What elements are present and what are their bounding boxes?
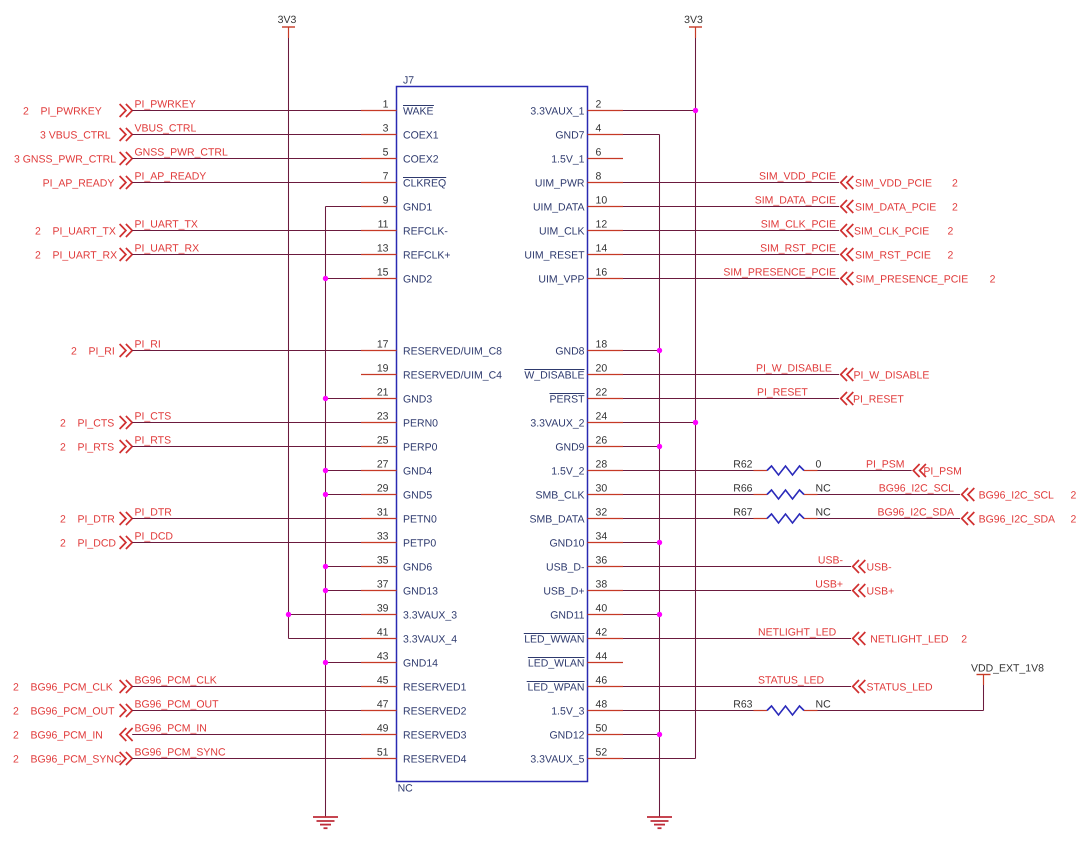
wire PI_AP_READY: [132, 182, 361, 184]
pin 10 UIM_DATA: [533, 195, 623, 214]
svg-text:SIM_DATA_PCIE: SIM_DATA_PCIE: [855, 202, 936, 214]
pin 40 GND11: [550, 603, 623, 622]
wire: [623, 350, 660, 352]
svg-text:3.3VAUX_5: 3.3VAUX_5: [530, 754, 584, 766]
junction: [657, 444, 662, 449]
junction: [657, 348, 662, 353]
wire PI_RESET: [623, 398, 839, 400]
svg-text:5: 5: [383, 147, 389, 159]
wire PI_PSM: [818, 470, 912, 472]
wire PI_UART_RX: [132, 254, 361, 256]
svg-text:VDD_EXT_1V8: VDD_EXT_1V8: [971, 663, 1044, 675]
wire BG96_PCM_CLK: [132, 686, 361, 688]
svg-text:PI_CTS: PI_CTS: [135, 411, 172, 423]
svg-text:USB_D-: USB_D-: [546, 562, 585, 574]
svg-text:UIM_RESET: UIM_RESET: [524, 250, 585, 262]
svg-text:3.3VAUX_2: 3.3VAUX_2: [530, 418, 584, 430]
pin 35 GND6: [361, 555, 432, 574]
svg-text:8: 8: [596, 171, 602, 183]
svg-text:PERP0: PERP0: [403, 442, 438, 454]
svg-text:PI_PWRKEY: PI_PWRKEY: [135, 99, 196, 111]
wire BG96_I2C_SDA: [818, 518, 961, 520]
svg-text:35: 35: [377, 555, 389, 567]
pin 37 GND13: [361, 579, 438, 598]
svg-text:23: 23: [377, 411, 389, 423]
svg-text:2 PI_UART_TX: 2 PI_UART_TX: [35, 226, 116, 238]
svg-text:GND11: GND11: [550, 610, 584, 622]
svg-text:GNSS_PWR_CTRL: GNSS_PWR_CTRL: [135, 147, 229, 159]
pin 26 GND9: [555, 435, 623, 454]
svg-text:2: 2: [596, 99, 602, 111]
svg-text:39: 39: [377, 603, 389, 615]
svg-text:2: 2: [952, 178, 958, 190]
svg-text:10: 10: [596, 195, 608, 207]
svg-text:4: 4: [596, 123, 602, 135]
wire 3V3 rail left: [288, 38, 290, 639]
svg-text:45: 45: [377, 675, 389, 687]
pin 11 REFCLK-: [361, 219, 448, 238]
svg-text:41: 41: [377, 627, 389, 639]
pin 39 3.3VAUX_3: [361, 603, 457, 622]
svg-text:24: 24: [596, 411, 608, 423]
pin 46 LED_WPAN: [527, 675, 623, 694]
power 3V3 left: [278, 14, 297, 38]
svg-text:SMB_DATA: SMB_DATA: [529, 514, 584, 526]
junction: [323, 396, 328, 401]
pin 38 USB_D+: [543, 579, 623, 598]
svg-text:R66: R66: [733, 483, 752, 495]
svg-text:BG96_PCM_CLK: BG96_PCM_CLK: [135, 675, 217, 687]
svg-text:USB-: USB-: [818, 555, 844, 567]
port SIM_RST_PCIE: [841, 248, 954, 262]
wire BG96_PCM_IN: [132, 734, 361, 736]
svg-text:49: 49: [377, 723, 389, 735]
power 3V3 right: [684, 14, 703, 38]
svg-text:3.3VAUX_4: 3.3VAUX_4: [403, 634, 457, 646]
svg-text:R62: R62: [733, 459, 752, 471]
pin 3 COEX1: [361, 123, 439, 142]
svg-text:2: 2: [1071, 514, 1077, 526]
svg-text:UIM_DATA: UIM_DATA: [533, 202, 585, 214]
ground right: [647, 817, 672, 828]
pin 19 RESERVED/UIM_C4: [361, 363, 502, 382]
wire: [623, 614, 660, 616]
wire SIM_PRESENCE_PCIE: [623, 278, 839, 280]
port PI_UART_RX: [35, 248, 132, 262]
junction: [693, 420, 698, 425]
svg-text:GND2: GND2: [403, 274, 432, 286]
wire PI_UART_TX: [132, 230, 361, 232]
wire: [326, 206, 362, 208]
pin 8 UIM_PWR: [535, 171, 623, 190]
svg-text:PI_AP_READY: PI_AP_READY: [43, 178, 115, 190]
svg-text:GND6: GND6: [403, 562, 432, 574]
junction: [323, 588, 328, 593]
pin 34 GND10: [549, 531, 623, 550]
svg-text:PI_RTS: PI_RTS: [135, 435, 172, 447]
wire: [326, 590, 362, 592]
svg-text:W_DISABLE: W_DISABLE: [524, 370, 584, 382]
port PI_RTS: [60, 440, 132, 454]
svg-text:GND8: GND8: [555, 346, 584, 358]
svg-text:GND14: GND14: [403, 658, 438, 670]
svg-text:2 PI_CTS: 2 PI_CTS: [60, 418, 114, 430]
pin 14 UIM_RESET: [524, 243, 623, 262]
svg-text:19: 19: [377, 363, 389, 375]
wire STATUS_LED: [623, 686, 851, 688]
wire: [623, 134, 660, 136]
port SIM_VDD_PCIE: [841, 176, 958, 190]
wire SIM_VDD_PCIE: [623, 182, 839, 184]
svg-text:3V3: 3V3: [278, 14, 297, 26]
svg-text:SMB_CLK: SMB_CLK: [535, 490, 584, 502]
pin 9 GND1: [361, 195, 432, 214]
wire PI_RI: [132, 350, 361, 352]
svg-text:RESERVED3: RESERVED3: [403, 730, 467, 742]
svg-text:R63: R63: [733, 699, 752, 711]
svg-text:37: 37: [377, 579, 389, 591]
junction: [323, 276, 328, 281]
pin 36 USB_D-: [546, 555, 623, 574]
pin 52 3.3VAUX_5: [530, 747, 623, 766]
svg-text:SIM_RST_PCIE: SIM_RST_PCIE: [760, 243, 836, 255]
port PI_UART_TX: [35, 224, 132, 238]
svg-text:USB+: USB+: [867, 586, 895, 598]
svg-text:1.5V_2: 1.5V_2: [551, 466, 584, 478]
wire: [623, 542, 660, 544]
port PI_AP_READY: [43, 176, 133, 190]
svg-text:27: 27: [377, 459, 389, 471]
wire PI_CTS: [132, 422, 361, 424]
wire USB+: [623, 590, 851, 592]
wire BG96_PCM_OUT: [132, 710, 361, 712]
pin 24 3.3VAUX_2: [530, 411, 623, 430]
svg-text:NC: NC: [816, 483, 832, 495]
svg-text:BG96_I2C_SCL: BG96_I2C_SCL: [879, 483, 954, 495]
svg-text:48: 48: [596, 699, 608, 711]
pin 21 GND3: [361, 387, 432, 406]
pin 7 CLKREQ: [361, 171, 446, 190]
svg-text:RESERVED1: RESERVED1: [403, 682, 467, 694]
pin 32 SMB_DATA: [529, 507, 623, 526]
svg-text:2: 2: [990, 274, 996, 286]
svg-text:BG96_PCM_IN: BG96_PCM_IN: [135, 723, 207, 735]
svg-text:26: 26: [596, 435, 608, 447]
svg-text:32: 32: [596, 507, 608, 519]
wire: [289, 638, 362, 640]
wire BG96_PCM_SYNC: [132, 758, 361, 760]
port PI_PSM: [913, 464, 962, 478]
svg-text:3.3VAUX_3: 3.3VAUX_3: [403, 610, 457, 622]
wire: [623, 446, 660, 448]
ground left: [313, 817, 338, 828]
pin 20 W_DISABLE: [524, 363, 623, 382]
svg-text:RESERVED4: RESERVED4: [403, 754, 467, 766]
svg-text:PERN0: PERN0: [403, 418, 438, 430]
port SIM_PRESENCE_PCIE: [841, 272, 996, 286]
wire: [623, 710, 754, 712]
svg-text:34: 34: [596, 531, 608, 543]
svg-text:COEX2: COEX2: [403, 154, 439, 166]
svg-text:BG96_PCM_OUT: BG96_PCM_OUT: [135, 699, 220, 711]
junction: [323, 468, 328, 473]
svg-text:USB+: USB+: [815, 579, 843, 591]
svg-text:1.5V_1: 1.5V_1: [551, 154, 584, 166]
wire 3V3 rail right: [695, 38, 697, 759]
svg-text:SIM_CLK_PCIE: SIM_CLK_PCIE: [761, 219, 836, 231]
svg-text:BG96_I2C_SDA: BG96_I2C_SDA: [878, 507, 954, 519]
port PI_DTR: [60, 512, 132, 526]
svg-text:PI_W_DISABLE: PI_W_DISABLE: [756, 363, 832, 375]
svg-text:GND13: GND13: [403, 586, 438, 598]
junction: [323, 660, 328, 665]
pin 15 GND2: [361, 267, 432, 286]
port STATUS_LED: [853, 680, 933, 694]
svg-text:40: 40: [596, 603, 608, 615]
svg-text:2 BG96_PCM_IN: 2 BG96_PCM_IN: [13, 730, 103, 742]
svg-text:REFCLK-: REFCLK-: [403, 226, 448, 238]
svg-text:NC: NC: [816, 699, 832, 711]
svg-text:GND10: GND10: [549, 538, 584, 550]
port PI_DCD: [60, 536, 132, 550]
svg-text:22: 22: [596, 387, 608, 399]
svg-text:31: 31: [377, 507, 389, 519]
pin 13 REFCLK+: [361, 243, 451, 262]
pin 49 RESERVED3: [361, 723, 467, 742]
svg-text:11: 11: [378, 219, 389, 231]
svg-text:GND5: GND5: [403, 490, 432, 502]
svg-text:1.5V_3: 1.5V_3: [551, 706, 584, 718]
junction: [323, 564, 328, 569]
pin 23 PERN0: [361, 411, 438, 430]
svg-text:R67: R67: [733, 507, 752, 519]
pin 48 1.5V_3: [551, 699, 623, 718]
pin 4 GND7: [555, 123, 623, 142]
pin 16 UIM_VPP: [538, 267, 623, 286]
svg-text:BG96_I2C_SDA: BG96_I2C_SDA: [979, 514, 1055, 526]
svg-text:3: 3: [383, 123, 389, 135]
pin 12 UIM_CLK: [539, 219, 623, 238]
svg-text:GND4: GND4: [403, 466, 432, 478]
junction: [657, 540, 662, 545]
svg-text:28: 28: [596, 459, 608, 471]
wire: [623, 758, 696, 760]
wire: [623, 470, 754, 472]
wire to VDD_EXT_1V8: [818, 710, 984, 712]
svg-text:SIM_VDD_PCIE: SIM_VDD_PCIE: [855, 178, 932, 190]
port BG96_PCM_OUT: [13, 704, 132, 718]
svg-text:43: 43: [377, 651, 389, 663]
port BG96_PCM_IN: [13, 728, 133, 742]
port BG96_I2C_SCL: [962, 488, 1077, 502]
port USB+: [853, 584, 895, 598]
svg-text:2: 2: [961, 634, 967, 646]
svg-text:LED_WPAN: LED_WPAN: [528, 682, 585, 694]
svg-text:15: 15: [377, 267, 389, 279]
port BG96_I2C_SDA: [962, 512, 1077, 526]
port BG96_PCM_CLK: [13, 680, 132, 694]
resistor R66: [733, 483, 831, 500]
resistor R67: [733, 507, 831, 524]
connector J7 body: [397, 87, 588, 782]
svg-text:2 PI_PWRKEY: 2 PI_PWRKEY: [23, 106, 102, 118]
wire PI_RTS: [132, 446, 361, 448]
pin 29 GND5: [361, 483, 432, 502]
svg-text:NC: NC: [816, 507, 832, 519]
junction: [286, 612, 291, 617]
pin 22 PERST: [549, 387, 623, 406]
wire NETLIGHT_LED: [623, 638, 851, 640]
port PI_RESET: [841, 392, 905, 406]
wire: [623, 422, 696, 424]
svg-text:3.3VAUX_1: 3.3VAUX_1: [530, 106, 584, 118]
svg-text:33: 33: [377, 531, 389, 543]
wire: [326, 470, 362, 472]
port BG96_PCM_SYNC: [13, 752, 132, 766]
svg-text:STATUS_LED: STATUS_LED: [867, 682, 934, 694]
svg-text:SIM_PRESENCE_PCIE: SIM_PRESENCE_PCIE: [723, 267, 836, 279]
port PI_CTS: [60, 416, 132, 430]
svg-text:2: 2: [948, 226, 954, 238]
pin 31 PETN0: [361, 507, 437, 526]
svg-text:LED_WWAN: LED_WWAN: [524, 634, 584, 646]
wire PI_W_DISABLE: [623, 374, 839, 376]
svg-text:SIM_VDD_PCIE: SIM_VDD_PCIE: [759, 171, 836, 183]
pin 50 GND12: [549, 723, 623, 742]
pin 5 COEX2: [361, 147, 439, 166]
svg-text:PETN0: PETN0: [403, 514, 437, 526]
svg-text:21: 21: [377, 387, 389, 399]
svg-text:SIM_DATA_PCIE: SIM_DATA_PCIE: [755, 195, 836, 207]
svg-text:NC: NC: [398, 783, 414, 795]
pin 25 PERP0: [361, 435, 438, 454]
svg-text:SIM_PRESENCE_PCIE: SIM_PRESENCE_PCIE: [856, 274, 969, 286]
svg-text:J7: J7: [403, 74, 414, 86]
junction: [657, 612, 662, 617]
svg-text:SIM_CLK_PCIE: SIM_CLK_PCIE: [854, 226, 929, 238]
svg-text:STATUS_LED: STATUS_LED: [758, 675, 825, 687]
wire BG96_I2C_SCL: [818, 494, 961, 496]
wire: [326, 398, 362, 400]
svg-text:GND1: GND1: [403, 202, 432, 214]
port NETLIGHT_LED: [853, 632, 968, 646]
wire: [983, 685, 985, 711]
svg-text:2: 2: [948, 250, 954, 262]
wire PI_DTR: [132, 518, 361, 520]
svg-text:USB-: USB-: [867, 562, 893, 574]
pin 27 GND4: [361, 459, 432, 478]
wire USB-: [623, 566, 851, 568]
wire SIM_RST_PCIE: [623, 254, 839, 256]
svg-text:2 BG96_PCM_SYNC: 2 BG96_PCM_SYNC: [13, 754, 122, 766]
svg-text:30: 30: [596, 483, 608, 495]
svg-text:WAKE: WAKE: [403, 106, 434, 118]
wire GNSS_PWR_CTRL: [132, 158, 361, 160]
svg-text:UIM_PWR: UIM_PWR: [535, 178, 585, 190]
svg-text:BG96_PCM_SYNC: BG96_PCM_SYNC: [135, 747, 226, 759]
wire SIM_DATA_PCIE: [623, 206, 839, 208]
pin 30 SMB_CLK: [535, 483, 623, 502]
svg-text:2 PI_DCD: 2 PI_DCD: [60, 538, 116, 550]
pin 1 WAKE: [361, 99, 434, 118]
pin 2 3.3VAUX_1: [530, 99, 623, 118]
svg-text:46: 46: [596, 675, 608, 687]
svg-text:3V3: 3V3: [684, 14, 703, 26]
pin 41 3.3VAUX_4: [361, 627, 457, 646]
svg-text:PI_PSM: PI_PSM: [866, 459, 905, 471]
svg-text:47: 47: [377, 699, 389, 711]
svg-text:16: 16: [596, 267, 608, 279]
svg-text:GND9: GND9: [555, 442, 584, 454]
svg-text:PI_DTR: PI_DTR: [135, 507, 173, 519]
svg-text:PETP0: PETP0: [403, 538, 436, 550]
svg-text:13: 13: [377, 243, 389, 255]
power VDD_EXT_1V8: [971, 663, 1044, 685]
svg-text:COEX1: COEX1: [403, 130, 439, 142]
wire PI_DCD: [132, 542, 361, 544]
pin 51 RESERVED4: [361, 747, 467, 766]
wire: [623, 494, 754, 496]
svg-text:PI_AP_READY: PI_AP_READY: [135, 171, 207, 183]
svg-text:2 PI_RI: 2 PI_RI: [71, 346, 115, 358]
svg-text:PI_UART_RX: PI_UART_RX: [135, 243, 200, 255]
svg-text:GND12: GND12: [549, 730, 584, 742]
svg-text:2 BG96_PCM_OUT: 2 BG96_PCM_OUT: [13, 706, 115, 718]
wire: [623, 518, 754, 520]
pin 43 GND14: [361, 651, 438, 670]
svg-text:2: 2: [1071, 490, 1077, 502]
svg-text:17: 17: [377, 339, 389, 351]
svg-text:3 GNSS_PWR_CTRL: 3 GNSS_PWR_CTRL: [14, 154, 116, 166]
svg-text:44: 44: [596, 651, 608, 663]
pin 45 RESERVED1: [361, 675, 467, 694]
svg-text:42: 42: [596, 627, 608, 639]
svg-text:2 BG96_PCM_CLK: 2 BG96_PCM_CLK: [13, 682, 113, 694]
pin 17 RESERVED/UIM_C8: [361, 339, 502, 358]
wire GND bus right: [659, 135, 661, 818]
svg-text:CLKREQ: CLKREQ: [403, 178, 446, 190]
wire: [326, 662, 362, 664]
svg-text:NETLIGHT_LED: NETLIGHT_LED: [870, 634, 949, 646]
junction: [657, 732, 662, 737]
pin 44 LED_WLAN: [528, 651, 623, 670]
junction: [323, 492, 328, 497]
svg-text:RESERVED/UIM_C4: RESERVED/UIM_C4: [403, 370, 502, 382]
wire: [326, 566, 362, 568]
svg-text:RESERVED/UIM_C8: RESERVED/UIM_C8: [403, 346, 502, 358]
svg-text:GND3: GND3: [403, 394, 432, 406]
resistor R62: [733, 459, 821, 476]
svg-text:REFCLK+: REFCLK+: [403, 250, 451, 262]
pin 33 PETP0: [361, 531, 436, 550]
svg-text:18: 18: [596, 339, 608, 351]
svg-text:9: 9: [383, 195, 389, 207]
svg-text:PI_PSM: PI_PSM: [923, 466, 962, 478]
port VBUS_CTRL: [40, 128, 132, 142]
wire SIM_CLK_PCIE: [623, 230, 839, 232]
svg-text:25: 25: [377, 435, 389, 447]
svg-text:PERST: PERST: [549, 394, 585, 406]
pin 6 1.5V_1: [551, 147, 623, 166]
svg-text:NETLIGHT_LED: NETLIGHT_LED: [758, 627, 837, 639]
port PI_W_DISABLE: [841, 368, 930, 382]
svg-text:20: 20: [596, 363, 608, 375]
wire: [289, 614, 362, 616]
port USB-: [853, 560, 892, 574]
port GNSS_PWR_CTRL: [14, 152, 132, 166]
port SIM_CLK_PCIE: [841, 224, 954, 238]
svg-text:0: 0: [816, 459, 822, 471]
